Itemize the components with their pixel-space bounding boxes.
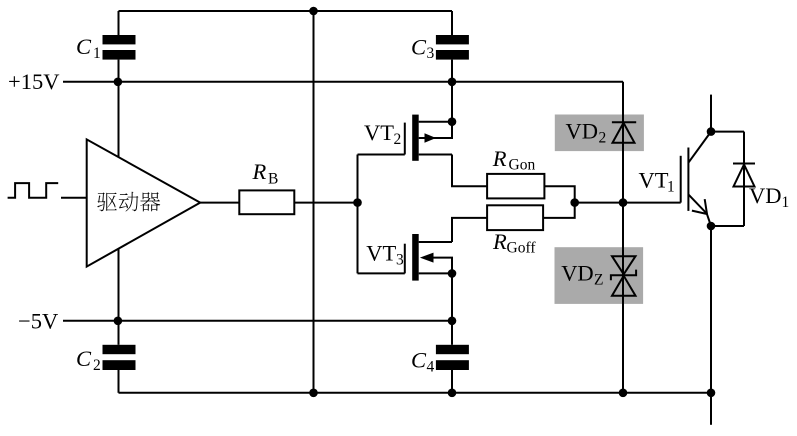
wire emitter down — [710, 226, 712, 393]
transistor VT2 body line with arrow — [419, 122, 452, 138]
wire -5V rail — [63, 320, 452, 322]
wire input to driver — [61, 197, 87, 199]
wire gate bus vertical — [357, 155, 359, 274]
svg-text:+15V: +15V — [8, 69, 59, 94]
transistor VT2 source line — [419, 154, 452, 156]
node VT1 collector — [707, 127, 716, 136]
wire VT3 drain to RGoff — [452, 218, 487, 242]
transistor VT1 collector lead — [688, 132, 711, 163]
svg-text:1: 1 — [667, 179, 675, 196]
svg-text:4: 4 — [427, 359, 435, 376]
node +15V / C3 column — [448, 78, 457, 87]
capacitor C1 — [103, 35, 136, 44]
transistor VT2 gate line — [404, 123, 406, 155]
transistor VT3 gate line — [404, 244, 406, 274]
node -5V / left column — [114, 317, 123, 326]
capacitor C2 — [103, 345, 136, 354]
svg-text:VD: VD — [566, 119, 599, 144]
node output / VD column — [619, 198, 628, 207]
svg-text:1: 1 — [782, 194, 790, 211]
diode VD2 — [612, 121, 636, 123]
transistor VT1 emitter arrow — [705, 199, 707, 214]
svg-text:2: 2 — [599, 130, 607, 147]
svg-text:R: R — [492, 146, 507, 171]
wire bottom rail — [119, 392, 712, 394]
resistor RGon — [487, 174, 544, 199]
wire C4 to bottom rail — [451, 370, 453, 393]
gray highlight box VDZ — [555, 247, 644, 304]
wire driver to -5V — [118, 249, 120, 321]
wire C3 to +15V — [451, 60, 453, 82]
wire gate bus to VT3 gate — [358, 272, 405, 274]
wire VD1 vertical — [743, 132, 745, 226]
svg-text:Gon: Gon — [509, 157, 536, 174]
svg-text:VD: VD — [561, 261, 594, 286]
wire VD1 bottom to emitter — [711, 225, 744, 227]
gray highlight box VD2 — [555, 115, 644, 152]
diode VD1 — [733, 163, 755, 165]
zener VDZ bottom triangle — [612, 276, 636, 296]
wire emitter below rail — [710, 393, 712, 425]
node -5V / C4 column — [448, 317, 457, 326]
svg-text:C: C — [76, 34, 92, 59]
svg-text:2: 2 — [394, 131, 402, 148]
wire left column top-rail to C1 — [118, 11, 120, 35]
wire -5V to C2 — [118, 321, 120, 345]
transistor VT1 IGBT channel bar — [687, 148, 689, 211]
resistor RGoff — [487, 205, 543, 230]
wire gate bus to VT2 gate — [358, 154, 405, 156]
node top rail / middle rail — [309, 7, 318, 16]
transistor VT3 source line — [419, 272, 452, 274]
wire C2 to bottom rail — [118, 370, 120, 393]
wire RB to gate bus — [294, 202, 357, 204]
node +15V / left column — [114, 78, 123, 87]
node bottom rail / middle — [309, 389, 318, 398]
svg-text:R: R — [492, 229, 507, 254]
svg-text:Goff: Goff — [507, 240, 537, 257]
node VT2 drain — [448, 117, 457, 126]
wire VT2 source to RGon — [452, 155, 487, 187]
svg-text:VT: VT — [366, 241, 396, 266]
wire output node to VD column — [575, 202, 623, 204]
transistor VT1 IGBT gate bar — [680, 156, 682, 203]
transistor VT2 drain line — [419, 121, 452, 123]
svg-text:1: 1 — [93, 45, 101, 62]
zener VDZ top triangle — [612, 256, 636, 274]
wire +15V to VT2 drain — [451, 82, 453, 122]
svg-text:2: 2 — [93, 357, 101, 374]
capacitor C4 — [436, 345, 469, 354]
node bottom rail / VD column — [619, 389, 628, 398]
node output RGon/RGoff — [570, 198, 579, 207]
node VT1 emitter — [707, 222, 716, 231]
wire C1 to +15V — [118, 60, 120, 82]
wire +15V rail — [63, 81, 623, 83]
zener VDZ bar — [611, 270, 636, 281]
capacitor C3 — [436, 35, 469, 44]
transistor VT3 channel bar — [412, 234, 419, 281]
wire collector to VD1 — [711, 131, 744, 133]
wire top rail — [119, 10, 453, 12]
svg-text:VT: VT — [639, 168, 669, 193]
svg-text:C: C — [411, 348, 427, 373]
svg-text:VT: VT — [364, 120, 394, 145]
svg-text:−5V: −5V — [18, 309, 58, 334]
node gate bus / RB — [353, 198, 362, 207]
svg-text:3: 3 — [396, 251, 404, 268]
node bottom rail / C4 — [448, 389, 457, 398]
label 驱动器 driver text — [97, 192, 117, 211]
svg-text:C: C — [411, 35, 427, 60]
svg-text:R: R — [252, 159, 267, 184]
wire -5V to C4 — [451, 321, 453, 345]
wire driver output to RB — [200, 202, 239, 204]
input square wave — [8, 183, 59, 198]
wire collector up — [710, 95, 712, 132]
op-amp driver triangle — [87, 139, 201, 266]
transistor VT1 emitter lead — [688, 194, 711, 226]
transistor VT3 body line with arrow — [434, 258, 453, 274]
svg-text:B: B — [268, 170, 278, 187]
wire VD column vertical — [622, 82, 624, 393]
wire middle vertical rail — [313, 11, 315, 393]
transistor VT2 channel bar — [412, 115, 419, 161]
svg-text:3: 3 — [427, 45, 435, 62]
transistor VT3 drain line — [419, 241, 452, 243]
wire output to IGBT gate — [623, 202, 681, 204]
wire VT3 source to -5V — [451, 273, 453, 320]
wire +15V down into driver — [118, 82, 120, 157]
wire RGoff to output node — [543, 203, 575, 218]
wire RGon to output node — [544, 186, 574, 202]
svg-text:C: C — [76, 346, 92, 371]
node VT3 source — [448, 269, 457, 278]
wire top rail to C3 — [451, 11, 453, 35]
svg-text:VD: VD — [749, 183, 782, 208]
resistor RB — [239, 190, 294, 214]
node bottom rail / emitter — [707, 389, 716, 398]
svg-text:Z: Z — [594, 272, 603, 289]
